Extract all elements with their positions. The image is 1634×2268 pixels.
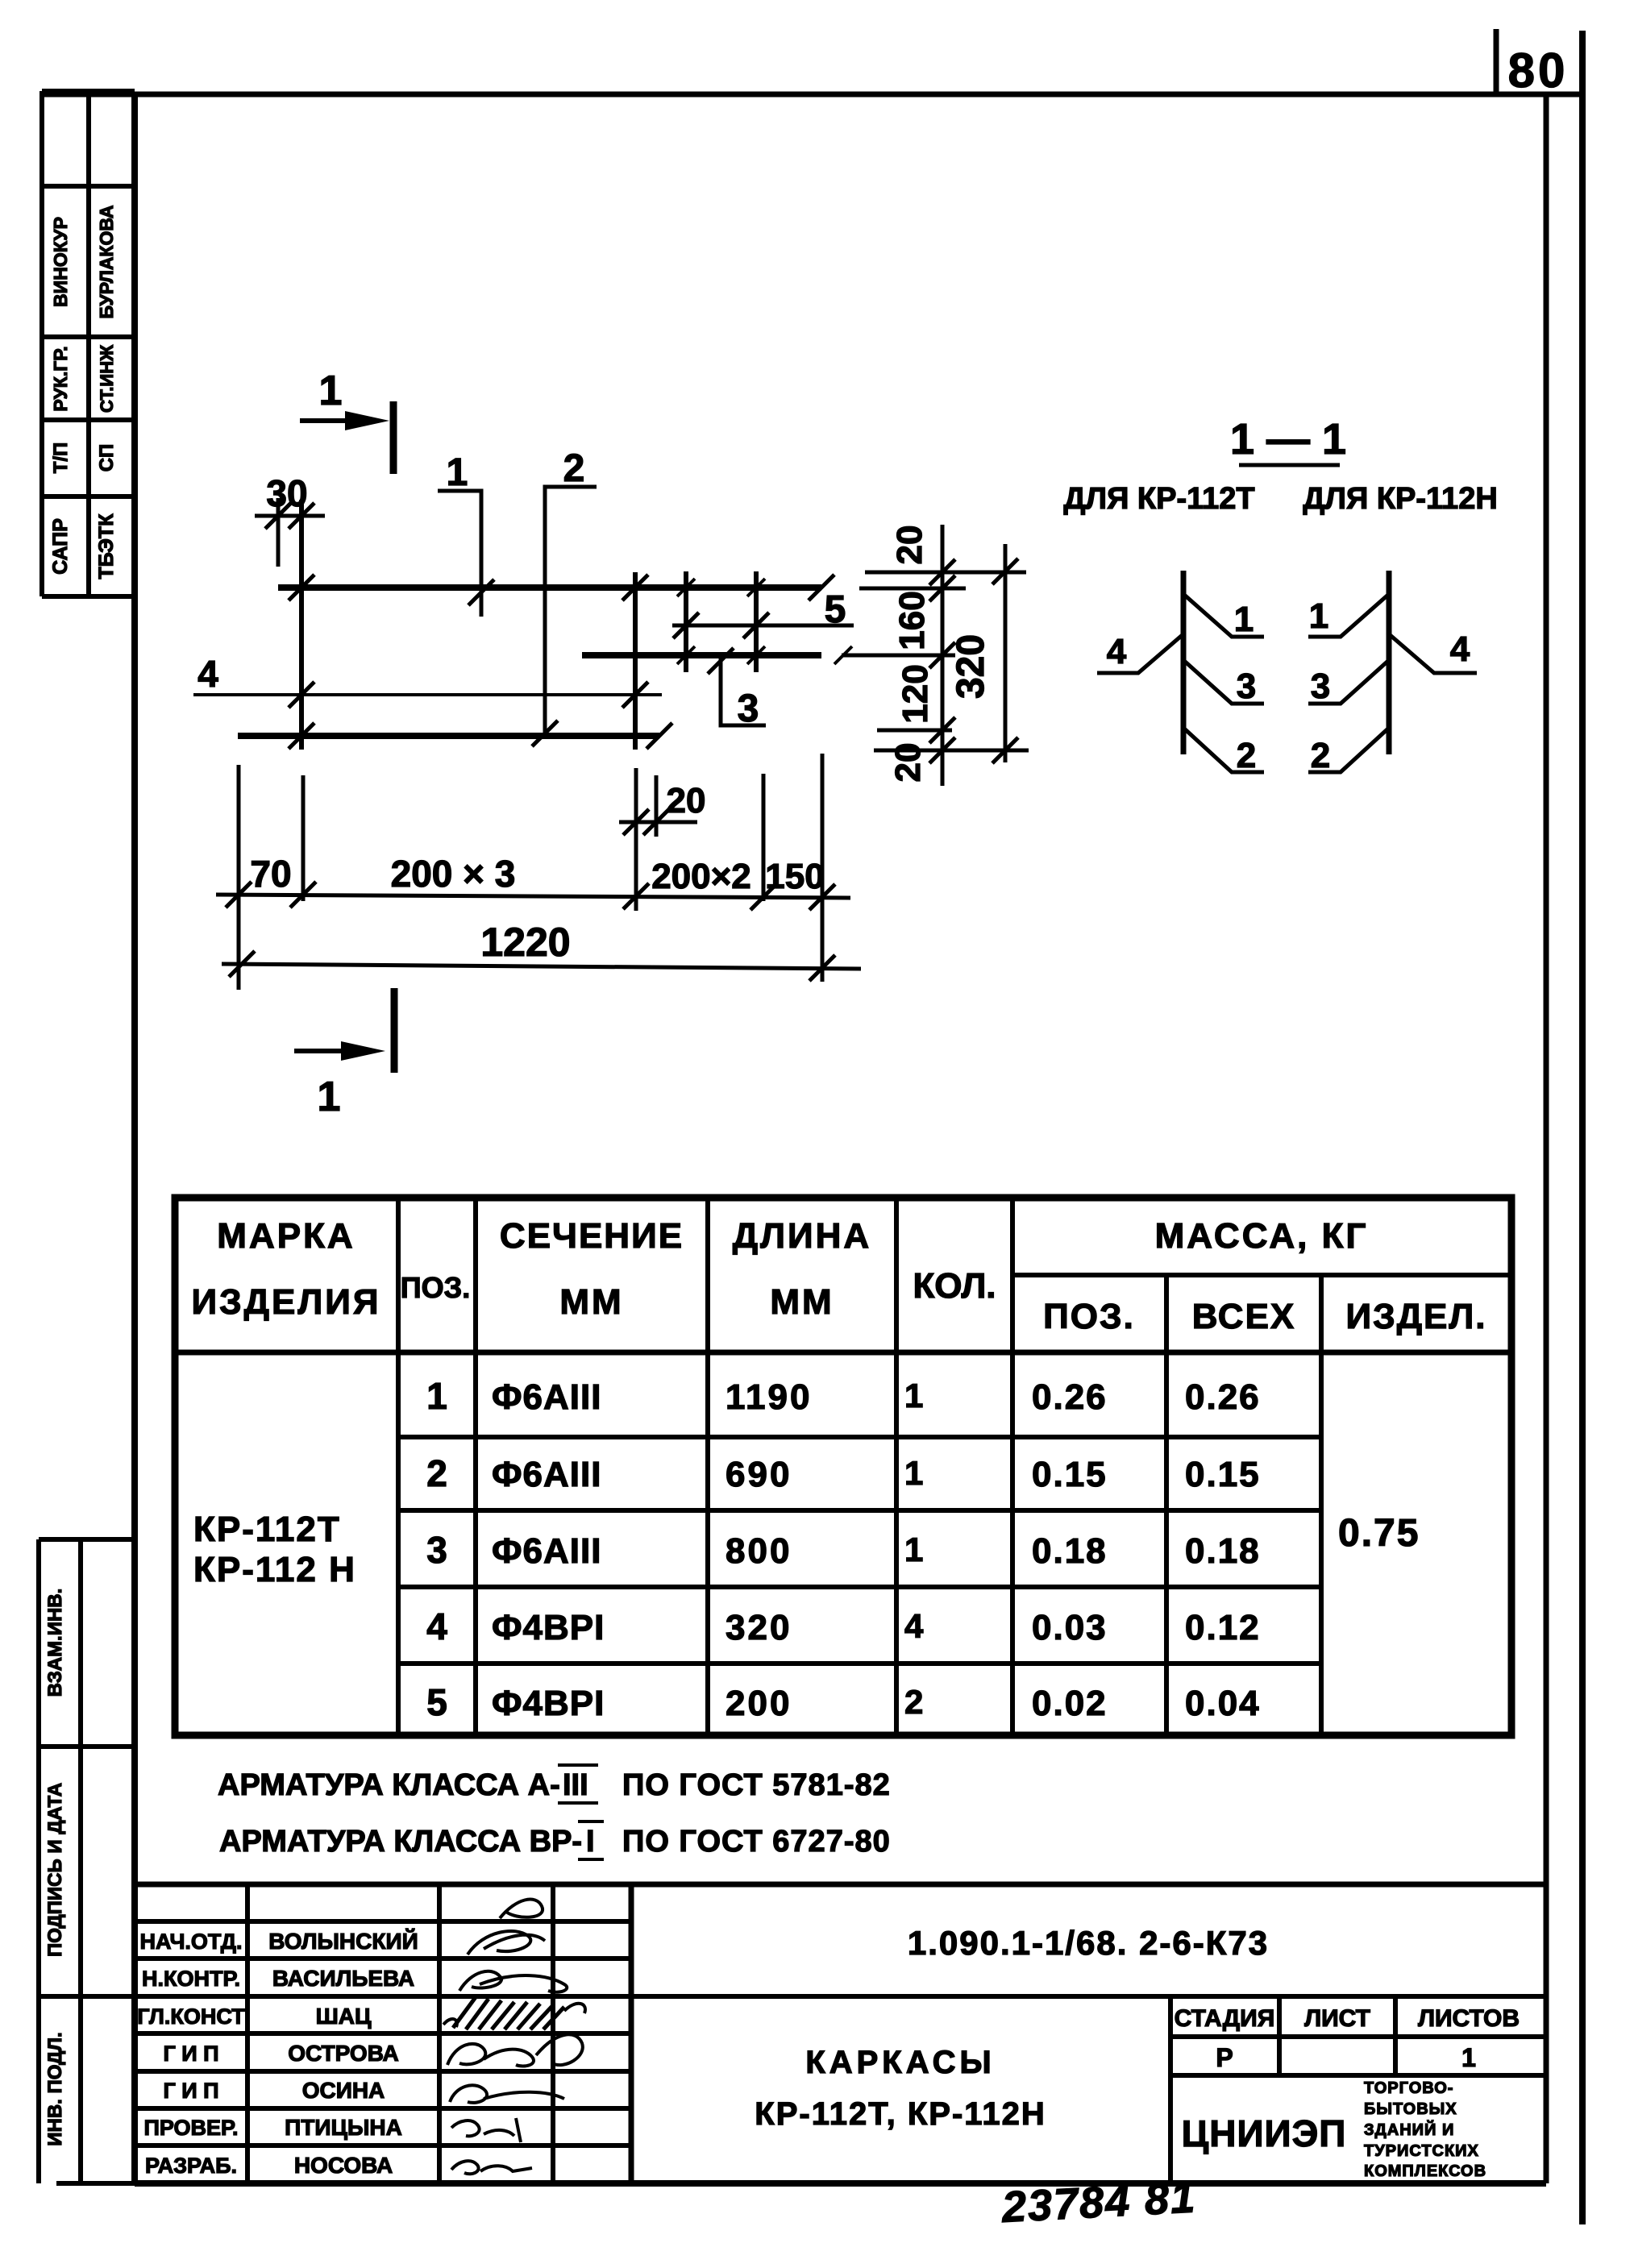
svg-text:4: 4 xyxy=(904,1607,924,1645)
svg-text:СТ.ИНЖ: СТ.ИНЖ xyxy=(97,345,117,413)
signature stray top loop xyxy=(500,1900,543,1918)
dim 30 line xyxy=(255,514,325,518)
dim 1220 ticks xyxy=(229,951,255,977)
svg-text:2: 2 xyxy=(426,1452,447,1494)
svg-text:0.18: 0.18 xyxy=(1032,1531,1108,1571)
dim chain ticks xyxy=(226,882,252,908)
callout 3 leader xyxy=(721,658,766,725)
svg-text:ПТИЦЫНА: ПТИЦЫНА xyxy=(285,2115,402,2140)
svg-text:Р: Р xyxy=(1216,2043,1233,2072)
signature Птицына xyxy=(451,2118,521,2142)
svg-text:НАЧ.ОТД.: НАЧ.ОТД. xyxy=(140,1929,243,1954)
svg-text:ТОРГОВО-: ТОРГОВО- xyxy=(1364,2079,1453,2097)
spec table outer border xyxy=(175,1198,1511,1735)
dim 30 ticks xyxy=(265,503,291,529)
svg-text:3: 3 xyxy=(426,1529,447,1571)
left figure wire4 leader xyxy=(1097,633,1185,673)
section mark 1 bottom tick bar xyxy=(391,988,398,1073)
dim 30 left extension xyxy=(276,498,281,567)
svg-text:20: 20 xyxy=(667,781,706,820)
svg-text:ИЗДЕЛИЯ: ИЗДЕЛИЯ xyxy=(191,1282,380,1322)
note 1 III overline underline xyxy=(558,1763,598,1767)
svg-text:РУК.ГР.: РУК.ГР. xyxy=(50,346,71,411)
svg-text:ПРОВЕР.: ПРОВЕР. xyxy=(143,2116,238,2140)
drawing frame left border xyxy=(131,92,138,2186)
rebar pos2 bottom longitudinal bar xyxy=(238,733,659,739)
callout 1 tick xyxy=(468,579,494,605)
chain extension y730 xyxy=(859,587,966,591)
signature Волынский xyxy=(468,1931,545,1954)
svg-text:КР-112Т, КР-112Н: КР-112Т, КР-112Н xyxy=(755,2096,1046,2132)
title block top line xyxy=(135,1882,1546,1888)
svg-text:1220: 1220 xyxy=(480,920,570,965)
dim 20 small line xyxy=(619,820,697,825)
svg-text:III: III xyxy=(563,1768,588,1802)
section mark 1 top tick bar xyxy=(390,401,397,474)
chain extension y710 xyxy=(865,571,1026,575)
wire crossing ticks xyxy=(289,575,314,600)
svg-text:САПР: САПР xyxy=(49,518,72,575)
svg-text:АРМАТУРА КЛАССА А-: АРМАТУРА КЛАССА А- xyxy=(218,1768,560,1802)
svg-text:Ф6АIII: Ф6АIII xyxy=(492,1455,601,1494)
svg-text:23784 81: 23784 81 xyxy=(1000,2173,1197,2232)
callout 5 leader line xyxy=(672,624,854,628)
svg-text:Г И П: Г И П xyxy=(163,2079,218,2103)
svg-text:КАРКАСЫ: КАРКАСЫ xyxy=(805,2045,995,2080)
drawing frame top border xyxy=(42,92,1582,98)
signature Васильева xyxy=(459,1971,567,1992)
svg-text:МАССА, КГ: МАССА, КГ xyxy=(1155,1216,1369,1256)
signature Острова xyxy=(447,2034,583,2066)
title block column lines xyxy=(247,1884,1395,2183)
svg-text:МАРКА: МАРКА xyxy=(217,1216,355,1256)
title block row lines left xyxy=(135,1921,631,2145)
right figure bar1 hook xyxy=(1308,594,1389,637)
svg-text:ПОЗ.: ПОЗ. xyxy=(401,1271,470,1304)
page number box divider xyxy=(1494,29,1499,94)
svg-text:ДЛИНА: ДЛИНА xyxy=(733,1216,871,1256)
svg-text:ОСИНА: ОСИНА xyxy=(302,2078,385,2103)
cross wire A pos4 xyxy=(299,500,304,750)
left section figure cross wire xyxy=(1181,571,1187,754)
drawing frame bottom border xyxy=(135,2180,1546,2187)
svg-text:ТБЭТК: ТБЭТК xyxy=(95,513,118,579)
right figure bar2 hook xyxy=(1308,728,1389,772)
left figure bar1 hook xyxy=(1183,594,1264,637)
svg-text:160: 160 xyxy=(892,591,932,650)
svg-text:КР-112 Н: КР-112 Н xyxy=(193,1550,356,1589)
svg-text:800: 800 xyxy=(726,1531,792,1571)
svg-text:3: 3 xyxy=(1311,667,1330,706)
svg-text:ЛИСТ: ЛИСТ xyxy=(1304,2005,1370,2032)
svg-text:ПОДПИСЬ И ДАТА: ПОДПИСЬ И ДАТА xyxy=(44,1783,66,1957)
svg-text:ВОЛЫНСКИЙ: ВОЛЫНСКИЙ xyxy=(268,1928,418,1954)
svg-text:3: 3 xyxy=(1237,667,1256,706)
title block line y2477 xyxy=(39,1994,1546,1999)
svg-text:1: 1 xyxy=(318,1074,341,1120)
lower sidebar grid xyxy=(39,1539,135,2183)
svg-text:ПО ГОСТ 6727-80: ПО ГОСТ 6727-80 xyxy=(622,1825,891,1859)
svg-text:БЫТОВЫХ: БЫТОВЫХ xyxy=(1364,2100,1457,2118)
svg-text:ММ: ММ xyxy=(770,1282,834,1322)
svg-text:5: 5 xyxy=(426,1681,447,1723)
svg-text:ИНВ. ПОДЛ.: ИНВ. ПОДЛ. xyxy=(44,2032,66,2145)
svg-text:4: 4 xyxy=(1450,629,1470,669)
svg-text:200 × 3: 200 × 3 xyxy=(391,853,516,895)
svg-text:АРМАТУРА КЛАССА ВР-: АРМАТУРА КЛАССА ВР- xyxy=(219,1825,582,1859)
right figure wire4 leader xyxy=(1387,633,1477,673)
svg-text:СТАДИЯ: СТАДИЯ xyxy=(1175,2005,1275,2032)
svg-text:Н.КОНТР.: Н.КОНТР. xyxy=(142,1967,240,1991)
svg-text:ИЗДЕЛ.: ИЗДЕЛ. xyxy=(1346,1297,1487,1336)
svg-text:КР-112Т: КР-112Т xyxy=(193,1510,341,1549)
svg-text:1: 1 xyxy=(1234,600,1254,639)
svg-text:1: 1 xyxy=(447,451,468,494)
svg-text:1: 1 xyxy=(426,1375,447,1417)
svg-text:1: 1 xyxy=(904,1454,923,1492)
svg-text:690: 690 xyxy=(726,1455,792,1494)
svg-text:I: I xyxy=(586,1825,595,1859)
svg-text:200×2: 200×2 xyxy=(651,857,751,896)
drawing frame inner right border xyxy=(1544,94,1549,2183)
svg-text:ДЛЯ КР-112Н: ДЛЯ КР-112Н xyxy=(1303,482,1498,516)
svg-text:ВСЕХ: ВСЕХ xyxy=(1192,1297,1296,1336)
dim 320 line xyxy=(1004,544,1008,762)
vertical dim chain line xyxy=(941,525,945,786)
callout 1 leader xyxy=(438,491,481,617)
svg-text:КОМПЛЕКСОВ: КОМПЛЕКСОВ xyxy=(1364,2162,1486,2180)
svg-text:200: 200 xyxy=(726,1684,792,1723)
svg-text:1: 1 xyxy=(319,368,343,414)
svg-text:ГЛ.КОНСТ: ГЛ.КОНСТ xyxy=(137,2004,245,2029)
svg-text:ЦНИИЭП: ЦНИИЭП xyxy=(1182,2112,1347,2154)
svg-text:ВАСИЛЬЕВА: ВАСИЛЬЕВА xyxy=(272,1966,414,1991)
svg-text:70: 70 xyxy=(250,853,291,895)
signature Шац base xyxy=(443,2004,585,2027)
callout 5 ticks xyxy=(673,613,699,638)
svg-text:Г И П: Г И П xyxy=(163,2042,218,2066)
svg-text:ЛИСТОВ: ЛИСТОВ xyxy=(1418,2005,1520,2032)
svg-text:4: 4 xyxy=(197,653,218,695)
left figure bar2 hook xyxy=(1183,728,1264,772)
section title underline xyxy=(1239,463,1340,467)
right section figure cross wire xyxy=(1387,571,1392,754)
svg-text:80: 80 xyxy=(1508,44,1569,98)
svg-text:ВЗАМ.ИНВ.: ВЗАМ.ИНВ. xyxy=(44,1589,66,1697)
svg-text:КОЛ.: КОЛ. xyxy=(913,1266,996,1306)
dim 1220 line xyxy=(222,964,861,969)
svg-text:20: 20 xyxy=(890,525,929,565)
rebar pos3 middle longitudinal bar xyxy=(582,652,821,658)
svg-text:320: 320 xyxy=(726,1608,792,1647)
dim chain line 70 200x3 200x2 150 xyxy=(216,895,850,898)
svg-text:0.04: 0.04 xyxy=(1185,1684,1261,1723)
svg-text:0.15: 0.15 xyxy=(1185,1455,1261,1494)
callout 4 thin line xyxy=(193,693,662,696)
svg-text:Ф6АIII: Ф6АIII xyxy=(492,1377,601,1417)
svg-text:2: 2 xyxy=(563,447,585,490)
svg-text:ОСТРОВА: ОСТРОВА xyxy=(288,2041,399,2066)
СТАДИЯ table row lines xyxy=(1170,2034,1546,2039)
svg-text:1190: 1190 xyxy=(726,1377,812,1417)
svg-text:1: 1 xyxy=(1309,596,1328,636)
svg-text:0.26: 0.26 xyxy=(1185,1377,1261,1417)
svg-text:1: 1 xyxy=(904,1377,923,1414)
svg-text:120: 120 xyxy=(896,664,935,723)
svg-text:1: 1 xyxy=(904,1531,923,1568)
svg-text:Ф6АIII: Ф6АIII xyxy=(492,1531,601,1571)
svg-text:1.090.1-1/68. 2-6-К73: 1.090.1-1/68. 2-6-К73 xyxy=(908,1924,1269,1962)
callout 3 tick xyxy=(708,648,734,674)
svg-text:СП: СП xyxy=(96,444,118,472)
signature Носова xyxy=(451,2161,532,2174)
svg-text:БУРЛАКОВА: БУРЛАКОВА xyxy=(96,206,117,319)
spec table row lines xyxy=(175,1275,1511,1664)
svg-text:4: 4 xyxy=(426,1605,447,1647)
svg-text:0.18: 0.18 xyxy=(1185,1531,1261,1571)
svg-text:ВИНОКУР: ВИНОКУР xyxy=(50,217,71,307)
svg-text:1: 1 xyxy=(1461,2043,1476,2072)
right figure bar3 hook xyxy=(1308,660,1389,704)
cross wire B pos4 xyxy=(633,572,638,750)
svg-text:Ф4ВРI: Ф4ВРI xyxy=(492,1608,605,1647)
svg-text:ММ: ММ xyxy=(559,1282,623,1322)
svg-text:ШАЦ: ШАЦ xyxy=(316,2004,372,2029)
svg-text:ЗДАНИЙ И: ЗДАНИЙ И xyxy=(1364,2120,1454,2139)
spec table column lines xyxy=(398,1198,1321,1735)
svg-text:0.15: 0.15 xyxy=(1032,1455,1108,1494)
svg-text:0.26: 0.26 xyxy=(1032,1377,1108,1417)
svg-text:Ф4ВРI: Ф4ВРI xyxy=(492,1684,605,1723)
svg-text:СЕЧЕНИЕ: СЕЧЕНИЕ xyxy=(500,1216,684,1256)
paper outer right edge xyxy=(1579,31,1586,2224)
svg-text:РАЗРАБ.: РАЗРАБ. xyxy=(145,2154,237,2178)
stamp sidebar grid xyxy=(42,91,135,596)
cross wire C pos5 xyxy=(684,571,688,672)
svg-text:ПО ГОСТ 5781-82: ПО ГОСТ 5781-82 xyxy=(622,1768,891,1802)
note 2 I overline underline xyxy=(578,1820,604,1823)
svg-text:0.03: 0.03 xyxy=(1032,1608,1108,1647)
section mark 1 top arrow line xyxy=(300,418,367,423)
dim 320 ticks xyxy=(992,559,1018,584)
callout 2 leader xyxy=(545,487,597,736)
svg-text:1 — 1: 1 — 1 xyxy=(1230,415,1346,463)
svg-text:4: 4 xyxy=(1107,632,1127,671)
section mark 1 bottom arrow line xyxy=(294,1049,359,1053)
svg-text:НОСОВА: НОСОВА xyxy=(294,2153,393,2178)
dim 20 ticks xyxy=(623,809,649,835)
svg-text:2: 2 xyxy=(1311,736,1330,775)
svg-text:ТУРИСТСКИХ: ТУРИСТСКИХ xyxy=(1364,2142,1479,2160)
left figure bar3 hook xyxy=(1183,660,1264,704)
cross wire D pos5 xyxy=(754,571,759,672)
chain extension y931 xyxy=(874,749,1029,753)
svg-text:150: 150 xyxy=(765,857,824,896)
svg-text:ПОЗ.: ПОЗ. xyxy=(1043,1297,1135,1336)
svg-text:2: 2 xyxy=(904,1683,923,1721)
chain extension y906 xyxy=(877,729,952,733)
section mark 1 top arrowhead xyxy=(345,411,389,430)
chain ticks xyxy=(929,559,955,585)
svg-text:2: 2 xyxy=(1237,736,1256,775)
signature Осина xyxy=(450,2085,564,2103)
section mark 1 bottom arrowhead xyxy=(341,1041,385,1061)
callout 2 tick xyxy=(532,721,558,746)
signature Шац hatch xyxy=(453,1997,564,2029)
chain extension y813 xyxy=(842,654,955,658)
svg-text:0.75: 0.75 xyxy=(1338,1512,1420,1555)
svg-text:ДЛЯ КР-112Т: ДЛЯ КР-112Т xyxy=(1063,482,1254,516)
bottom dim extension lines xyxy=(239,754,822,990)
svg-text:0.12: 0.12 xyxy=(1185,1608,1261,1647)
svg-text:20: 20 xyxy=(888,743,928,783)
svg-text:Т/П: Т/П xyxy=(50,442,72,474)
svg-text:320: 320 xyxy=(950,634,992,699)
rebar pos1 top longitudinal bar xyxy=(278,584,821,591)
svg-text:0.02: 0.02 xyxy=(1032,1684,1108,1723)
